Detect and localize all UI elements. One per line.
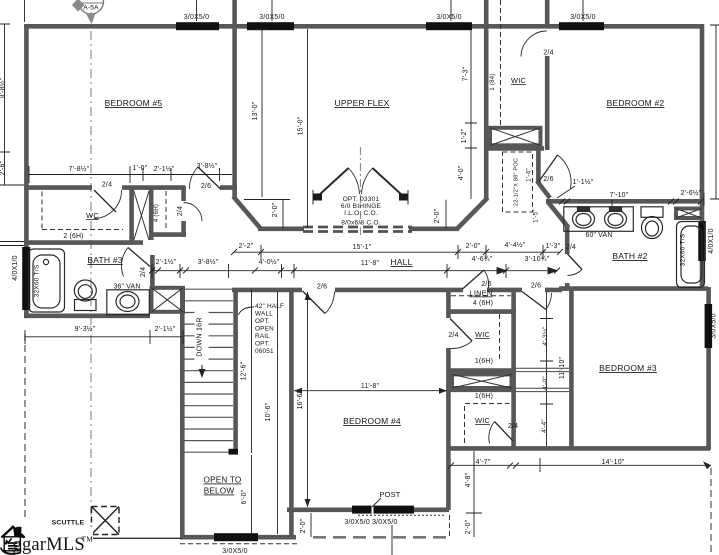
wall hall south b — [335, 288, 463, 293]
svg-text:32X60 T/S: 32X60 T/S — [680, 233, 687, 266]
door bedroom3 leaf — [522, 292, 546, 310]
wall bedroom4 south — [287, 507, 449, 512]
svg-text:BEDROOM #5: BEDROOM #5 — [105, 98, 163, 108]
svg-text:15'-0": 15'-0" — [298, 116, 305, 135]
svg-text:12'-6": 12'-6" — [241, 361, 248, 380]
arrow 16-6 bottom — [305, 499, 311, 507]
wall chase south bedroom2 — [487, 146, 544, 151]
tick marks slashes rowB — [149, 268, 560, 274]
svg-text:BELOW: BELOW — [204, 487, 235, 496]
svg-text:1(6H): 1(6H) — [475, 393, 493, 400]
svg-text:BEDROOM #4: BEDROOM #4 — [343, 416, 401, 426]
svg-text:9'-8½": 9'-8½" — [0, 77, 7, 98]
leader line bottom window — [391, 525, 393, 555]
svg-text:3/0X5/0: 3/0X5/0 — [711, 313, 718, 339]
door bath2 leaf — [568, 254, 583, 270]
svg-text:3/0X5/0: 3/0X5/0 — [184, 14, 210, 21]
double lines vestibule — [516, 368, 569, 391]
svg-text:2'-1½": 2'-1½" — [155, 325, 176, 333]
scuttle line — [93, 537, 182, 539]
section marker A-5A — [72, 0, 104, 24]
centerline bifold — [360, 147, 362, 236]
wic1 rod dashed — [499, 314, 501, 361]
svg-text:8/0x6/8 C.O.: 8/0x6/8 C.O. — [341, 220, 380, 227]
dim bedroom2 7-10 — [612, 193, 704, 206]
svg-text:2'-2": 2'-2" — [239, 243, 254, 250]
wall closets east — [511, 292, 516, 448]
window 3/0x5/0 bedroom5 — [176, 22, 219, 30]
leader post — [372, 498, 381, 507]
window open-below — [214, 533, 258, 541]
svg-text:WIC: WIC — [475, 330, 490, 339]
door wc leaf — [94, 190, 116, 212]
svg-text:2/4: 2/4 — [177, 206, 184, 216]
house icon lines — [8, 542, 18, 544]
door bedroom4 leaf — [303, 291, 326, 314]
arrow bottom right — [703, 461, 711, 469]
wall closet east bath3 upper — [181, 186, 186, 201]
vanity bath2 counter — [564, 207, 634, 232]
door linen leaf — [463, 270, 485, 289]
bifold left leaf — [318, 168, 349, 196]
faucets bath2 — [578, 207, 590, 212]
half wall note — [255, 303, 284, 355]
dim left vertical — [0, 0, 25, 246]
svg-text:2'-1½": 2'-1½" — [156, 258, 177, 266]
wall bath2 west — [565, 226, 570, 254]
wall bedroom3 east — [706, 287, 711, 450]
svg-text:36" VAN: 36" VAN — [113, 284, 140, 291]
svg-text:3/0X5/0: 3/0X5/0 — [570, 14, 596, 21]
chase box upper — [490, 128, 541, 146]
svg-text:WIC: WIC — [475, 416, 490, 425]
svg-text:2'-0": 2'-0" — [434, 208, 441, 223]
wall bedroom2 west upper — [545, 56, 550, 150]
svg-text:2'-6": 2'-6" — [0, 160, 7, 175]
svg-text:OPEN TO: OPEN TO — [204, 476, 242, 485]
svg-text:HALL: HALL — [390, 257, 412, 267]
wall right exterior — [700, 24, 705, 290]
house icon roof — [2, 527, 25, 538]
svg-text:4 (6H): 4 (6H) — [153, 204, 160, 222]
svg-text:2/4: 2/4 — [508, 423, 518, 430]
svg-text:TM: TM — [82, 535, 94, 544]
svg-text:7'-8½": 7'-8½" — [69, 165, 90, 173]
dashed vertical right of bedroom4 — [449, 515, 451, 539]
dim flex right 4ft — [446, 29, 477, 228]
wall bath3 south — [24, 313, 150, 318]
stair treads — [182, 289, 233, 452]
svg-text:2/6: 2/6 — [317, 284, 327, 291]
chase box closets — [452, 374, 512, 388]
svg-text:WALL: WALL — [255, 311, 273, 318]
X chase upper — [490, 128, 541, 146]
toilet bath3 bowl — [74, 280, 96, 301]
window pair bedroom4 — [352, 506, 414, 514]
svg-text:4'-6¾": 4'-6¾" — [472, 256, 493, 263]
wall bedroom4 east upper — [446, 292, 451, 318]
svg-text:2'-0": 2'-0" — [300, 518, 307, 533]
arrow 11-8 left — [294, 388, 302, 394]
sink bath2 left — [573, 210, 595, 228]
wall xbox south — [447, 387, 516, 392]
dim stairs 12-6 — [251, 289, 253, 534]
toilet bath2 bowl — [642, 217, 663, 239]
svg-text:BATH #3: BATH #3 — [87, 255, 122, 265]
door wc arc — [94, 190, 122, 219]
wall bath2 west stub — [565, 283, 570, 290]
tub bath2 — [677, 222, 705, 288]
scuttle xbox dashed — [92, 507, 120, 535]
wall flex south west — [258, 227, 304, 232]
svg-text:4/0X1/0: 4/0X1/0 — [12, 255, 19, 281]
option note flex — [341, 196, 382, 227]
door labels — [102, 50, 554, 431]
svg-text:15'-1": 15'-1" — [353, 244, 372, 251]
dim vestibule — [540, 292, 553, 446]
dim right edge — [710, 25, 719, 199]
bifold right arc — [362, 168, 373, 194]
svg-text:2'-0": 2'-0" — [272, 202, 279, 217]
wall open-below south — [180, 535, 296, 540]
house icon checkmark — [6, 538, 12, 542]
heavy dash below bedroom4 — [313, 536, 449, 539]
window 3/0x5/0 wic — [426, 22, 472, 30]
svg-text:3/0X5/0: 3/0X5/0 — [222, 548, 248, 555]
svg-text:13'-0": 13'-0" — [252, 101, 259, 120]
arrow 11-8 right — [439, 388, 447, 394]
svg-text:A-5A: A-5A — [83, 5, 99, 12]
wall bedroom4 east lower — [446, 348, 451, 510]
svg-text:BEDROOM #2: BEDROOM #2 — [607, 98, 665, 108]
svg-text:1'-2": 1'-2" — [461, 128, 468, 143]
svg-text:4'-0½": 4'-0½" — [259, 258, 280, 266]
wall flex chamfer west — [233, 196, 260, 228]
svg-text:2/4: 2/4 — [102, 182, 112, 189]
bifold track wic-b2 dashed — [500, 0, 502, 126]
svg-text:3/0X5/0: 3/0X5/0 — [259, 14, 285, 21]
wall bedroom2 west lower — [536, 148, 541, 183]
svg-text:OPT.: OPT. — [255, 341, 270, 348]
dim right 4-8 — [466, 451, 482, 537]
door linen arc — [484, 270, 489, 288]
wall bedroom5 south b — [122, 185, 185, 190]
svg-text:4'-4": 4'-4" — [541, 419, 548, 433]
wall bath2 north vanity — [546, 199, 704, 204]
wall hall south c — [487, 288, 522, 293]
dashed below open-below wall — [180, 543, 298, 545]
wall bedroom3 north — [559, 286, 708, 291]
svg-text:2/4: 2/4 — [448, 332, 458, 339]
attic boundary dashed — [24, 334, 26, 521]
window bath2 tub — [698, 221, 706, 261]
svg-text:11'-8": 11'-8" — [361, 383, 380, 390]
wic2 shelf dashed — [465, 404, 510, 444]
svg-text:BEDROOM #3: BEDROOM #3 — [599, 363, 657, 373]
leader window label top — [197, 0, 584, 21]
svg-text:6'-0": 6'-0" — [241, 489, 248, 504]
door bedroom2 arc — [558, 155, 572, 189]
svg-text:4'-3½": 4'-3½" — [541, 326, 549, 345]
svg-text:2/4: 2/4 — [543, 50, 553, 57]
wall wc south — [24, 240, 143, 245]
closet rod shelf dashed — [165, 191, 167, 231]
svg-text:OPT. 03301: OPT. 03301 — [343, 196, 380, 203]
wall bath2 west chamfer — [548, 202, 569, 228]
window 4/0x1/0 bath3 — [22, 247, 30, 310]
svg-text:3/0X5/0 3/0X5/0: 3/0X5/0 3/0X5/0 — [344, 519, 397, 526]
svg-text:2/4: 2/4 — [140, 267, 147, 277]
svg-text:2 (6H): 2 (6H) — [63, 233, 83, 240]
pocket door dashed rect — [503, 152, 533, 212]
wall chase west bath3 — [129, 189, 134, 242]
wall ext bedroom2 top — [545, 0, 550, 24]
sink bath2 right — [605, 210, 627, 228]
svg-text:06051: 06051 — [255, 348, 274, 355]
dashed vertical bottom right — [710, 468, 712, 553]
svg-text:UPPER FLEX: UPPER FLEX — [335, 98, 390, 108]
wall flex east — [484, 0, 489, 199]
svg-text:42" HALF: 42" HALF — [255, 303, 284, 310]
wall open-below west — [180, 289, 185, 539]
svg-text:1'-4": 1'-4" — [526, 168, 533, 182]
door wic1 arc — [451, 341, 473, 349]
centerline left — [90, 12, 92, 530]
wall wic1 south — [447, 368, 516, 373]
dim bottom long — [451, 458, 711, 472]
house icon body — [4, 537, 20, 551]
svg-text:SCUTTLE: SCUTTLE — [52, 520, 85, 527]
tub bath3 — [29, 249, 65, 312]
svg-text:DOWN 16R: DOWN 16R — [195, 317, 204, 357]
svg-text:OPT.: OPT. — [255, 318, 270, 325]
svg-text:11'-8": 11'-8" — [361, 260, 380, 267]
svg-text:4'-8": 4'-8" — [465, 472, 472, 487]
svg-text:WIC: WIC — [511, 76, 526, 85]
dim open-below 10-6 — [277, 292, 279, 534]
svg-text:2'-6½": 2'-6½" — [681, 189, 702, 197]
bifold right leaf — [373, 168, 404, 196]
vanity bath3 — [107, 290, 150, 315]
svg-text:60" VAN: 60" VAN — [585, 232, 612, 239]
svg-text:14'-10": 14'-10" — [602, 459, 625, 466]
svg-text:1'-3": 1'-3" — [546, 243, 561, 250]
wall bedroom5 south a — [24, 185, 92, 190]
opening flex south dashed — [303, 226, 412, 229]
door bedroom2 leaf — [539, 155, 558, 182]
svg-text:3'-8½": 3'-8½" — [197, 162, 218, 170]
svg-text:1'-1½": 1'-1½" — [573, 178, 594, 186]
svg-text:22-1/2"X 88" POC: 22-1/2"X 88" POC — [514, 158, 520, 206]
wall bedroom4 west — [289, 292, 294, 539]
svg-text:1(6H): 1(6H) — [475, 358, 493, 365]
svg-text:2/6: 2/6 — [201, 183, 211, 190]
wall bedroom2 chamfer — [537, 181, 550, 198]
leader 1-1.5 — [557, 186, 575, 198]
svg-text:1'-5": 1'-5" — [533, 209, 540, 223]
svg-text:16'-6": 16'-6" — [297, 390, 304, 409]
svg-text:7'-10": 7'-10" — [610, 192, 629, 199]
door bedroom5 leaf — [198, 167, 221, 189]
house icon swoosh — [0, 547, 21, 555]
arrow rowB mid — [497, 268, 506, 274]
svg-text:1 (84): 1 (84) — [489, 73, 496, 90]
arrow 16-6 top — [305, 292, 311, 300]
dim bedroom4 width — [294, 390, 447, 392]
door bedroom5 arc — [189, 167, 198, 189]
svg-text:POST: POST — [380, 490, 401, 499]
tick marks vanity wall — [559, 199, 704, 205]
window 3/0x5/0 bedroom3 — [705, 304, 713, 348]
bifold left arc — [349, 168, 360, 194]
tick marks rowA — [231, 249, 563, 255]
svg-text:7'-3": 7'-3" — [463, 66, 470, 81]
svg-text:1'-0": 1'-0" — [133, 165, 148, 172]
svg-text:OPEN: OPEN — [255, 326, 274, 333]
toilet bath2 tank — [641, 207, 663, 218]
dim 2-0 bottom — [310, 513, 312, 537]
svg-text:ggarMLS: ggarMLS — [13, 535, 85, 555]
svg-text:4'-0": 4'-0" — [458, 165, 465, 180]
window 3/0x5/0 bedroom2 — [559, 22, 604, 30]
dim flex 15ft / ext — [307, 29, 309, 507]
door bath3 arc — [121, 248, 128, 277]
wall closet south bath3 — [149, 232, 186, 237]
dim row A hall upper — [234, 245, 560, 259]
chase box hall — [152, 288, 184, 312]
linen shelf dashed — [451, 295, 511, 297]
svg-text:2'-1½": 2'-1½" — [154, 165, 175, 173]
svg-text:4/0X1/0: 4/0X1/0 — [708, 228, 715, 254]
wall hall south a — [232, 288, 302, 293]
dim flex 2ft corner — [244, 200, 290, 229]
door bath2 arc — [568, 270, 583, 276]
tick marks bottom dim — [448, 463, 519, 469]
svg-text:2/6: 2/6 — [543, 176, 553, 183]
down label bg — [195, 305, 209, 365]
wall flex chamfer east — [458, 198, 488, 229]
svg-text:2'-0": 2'-0" — [465, 519, 472, 534]
closet rod wc dashed — [42, 192, 123, 230]
door wic2 leaf — [495, 422, 514, 442]
wall bedroom3 south — [447, 446, 710, 451]
dim flex 13ft — [256, 29, 268, 197]
svg-text:3/0X5/0: 3/0X5/0 — [436, 14, 462, 21]
dim row B hall lower — [152, 264, 557, 278]
svg-text:32X60 T/S: 32X60 T/S — [34, 264, 41, 297]
svg-text:9'-3½": 9'-3½" — [75, 325, 96, 333]
door wic-b2 arc — [521, 31, 547, 57]
door bedroom3 arc — [546, 293, 552, 310]
wall flex west — [232, 0, 237, 198]
wall bath3 door jamb — [150, 255, 155, 287]
wall left exterior — [24, 24, 29, 318]
wall stairs east — [233, 289, 238, 454]
door wic2 arc — [489, 422, 495, 444]
svg-text:10'-6": 10'-6" — [265, 402, 272, 421]
svg-text:4'-7": 4'-7" — [476, 459, 491, 466]
svg-text:6/0 BIHINGE: 6/0 BIHINGE — [341, 203, 382, 210]
dim bath3 south — [25, 330, 183, 344]
svg-text:3'-8½": 3'-8½" — [198, 258, 219, 266]
house icon chimney — [16, 527, 21, 533]
down arrow — [199, 310, 206, 378]
window 3/0x5/0 flex — [247, 22, 294, 30]
toilet bath3 tank — [75, 300, 97, 311]
X chase closets — [452, 374, 512, 388]
svg-text:RAIL: RAIL — [255, 333, 270, 340]
chase box bath2 — [676, 209, 702, 219]
svg-text:2/6: 2/6 — [481, 281, 491, 288]
window mullion bedroom4 — [372, 505, 374, 514]
svg-text:I.L.O. C.O.: I.L.O. C.O. — [344, 210, 378, 217]
svg-text:4'-4½": 4'-4½" — [505, 241, 526, 249]
door closet bath3 arc — [184, 203, 202, 222]
wall closet east bath3 lower — [181, 221, 186, 237]
bifold left jamb — [313, 194, 408, 201]
svg-text:3'-10¾": 3'-10¾" — [525, 256, 550, 263]
wall chase east bath3 — [149, 189, 154, 240]
door bedroom4 arc — [325, 292, 335, 314]
dimension texts horizontal — [63, 162, 701, 466]
door wic1 leaf — [450, 319, 472, 342]
svg-text:2'-0": 2'-0" — [466, 243, 481, 250]
wall hall south d — [545, 288, 562, 293]
svg-text:4 (6H): 4 (6H) — [473, 300, 493, 307]
door bath3 leaf — [128, 248, 150, 267]
stair newel cap — [229, 449, 239, 455]
svg-text:BATH #2: BATH #2 — [612, 251, 647, 261]
house icon right roof fill — [13, 527, 26, 538]
rotated dimension texts — [0, 66, 566, 534]
X chase hall — [152, 288, 184, 312]
dim row bedroom5 south — [29, 166, 232, 183]
X chase bath2 — [676, 209, 702, 219]
wall linen south — [447, 309, 516, 314]
wall bedroom5 south c — [220, 185, 237, 190]
wall bedroom3 west — [569, 289, 574, 448]
svg-text:WC: WC — [86, 211, 99, 220]
svg-text:LINEN: LINEN — [470, 289, 493, 298]
wall flex south east — [409, 227, 459, 232]
dotted below bedroom4 wall — [358, 514, 446, 516]
X chase bath3 — [134, 191, 149, 240]
svg-text:2/4: 2/4 — [566, 244, 576, 251]
svg-text:2/6: 2/6 — [531, 283, 541, 290]
leader half-wall note — [239, 307, 255, 315]
wall top exterior — [24, 24, 704, 29]
